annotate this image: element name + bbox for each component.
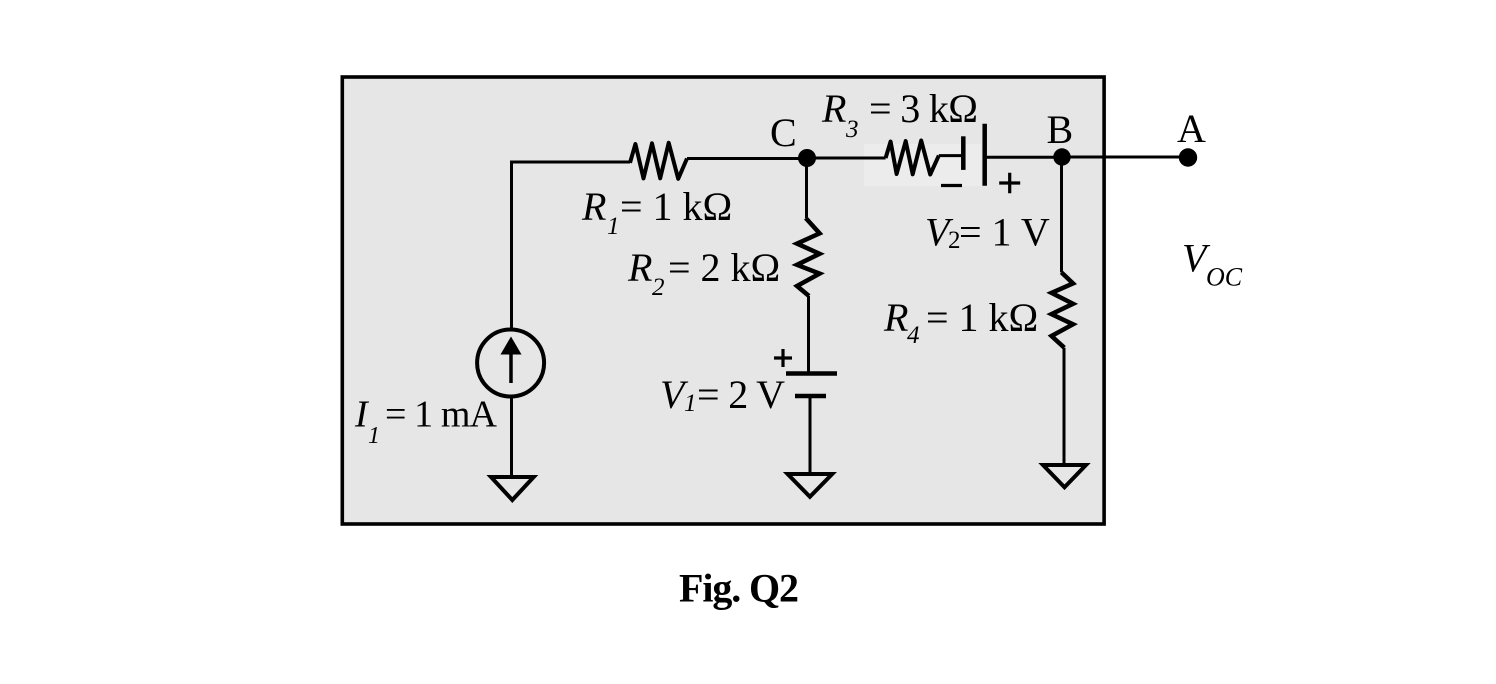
ground (under V1) xyxy=(788,474,833,497)
node B xyxy=(1053,148,1070,165)
wire: R1 to node C xyxy=(687,157,807,160)
svg-text:Fig. Q2: Fig. Q2 xyxy=(679,566,799,611)
label R1 = 1 kOhm xyxy=(581,184,732,240)
battery V2 long plate xyxy=(982,124,987,186)
resistor R4 xyxy=(1052,272,1074,347)
svg-text:C: C xyxy=(770,110,797,155)
ground (under R4) xyxy=(1043,465,1086,487)
resistor R3 xyxy=(886,141,939,175)
battery V1 plus sign xyxy=(774,349,792,367)
battery V1 short plate xyxy=(795,394,826,399)
node A xyxy=(1179,148,1197,166)
svg-text:= 3 kΩ: = 3 kΩ xyxy=(869,86,978,131)
wire: node C to R3 xyxy=(807,157,886,160)
wire: current source to ground xyxy=(510,397,513,476)
resistor R2 xyxy=(797,218,820,296)
wire: battery V2 to node B xyxy=(986,156,1062,159)
wire: left vertical + top horizontal to R1 xyxy=(512,162,631,330)
ground (under I1) xyxy=(491,477,534,500)
current source arrow xyxy=(509,352,513,383)
battery V1 long plate xyxy=(786,371,837,376)
svg-text:= 1 kΩ: = 1 kΩ xyxy=(926,295,1038,340)
svg-text:= 2 kΩ: = 2 kΩ xyxy=(668,245,780,290)
svg-text:3: 3 xyxy=(845,116,859,143)
svg-text:1: 1 xyxy=(607,213,620,240)
svg-text:= 1 kΩ: = 1 kΩ xyxy=(620,184,732,229)
current source I1 circle xyxy=(477,330,544,397)
battery V2 short plate xyxy=(961,136,966,170)
svg-text:= 1 V: = 1 V xyxy=(959,210,1050,255)
highlight rectangle behind R3 xyxy=(864,144,981,186)
battery V2 minus sign xyxy=(941,184,962,187)
node C xyxy=(798,149,816,167)
battery V2 plus sign xyxy=(999,173,1020,193)
svg-text:A: A xyxy=(1177,106,1206,151)
svg-text:4: 4 xyxy=(907,322,920,349)
circuit boundary box xyxy=(342,77,1104,524)
svg-text:= 1 mA: = 1 mA xyxy=(385,394,498,436)
wire: R3 to battery V2 xyxy=(939,154,962,157)
label R2 = 2 kOhm xyxy=(627,245,780,301)
label V2 = 1 V xyxy=(925,210,1050,255)
svg-text:R: R xyxy=(821,86,846,131)
svg-text:= 2 V: = 2 V xyxy=(697,372,785,417)
label Voc xyxy=(1182,236,1243,292)
svg-text:1: 1 xyxy=(368,423,380,449)
wire: R4 to ground xyxy=(1063,348,1066,463)
svg-text:R: R xyxy=(581,184,606,229)
svg-text:1: 1 xyxy=(684,390,697,417)
svg-text:R: R xyxy=(627,245,652,290)
label R4 = 1 kOhm xyxy=(883,295,1038,349)
svg-text:OC: OC xyxy=(1206,263,1243,292)
svg-text:B: B xyxy=(1047,107,1074,152)
svg-text:R: R xyxy=(883,295,908,340)
label V1 = 2 V xyxy=(660,372,785,417)
wire: node B to node A xyxy=(1062,156,1188,159)
wire: node C down to R2 xyxy=(805,158,808,218)
wire: node B down to R4 xyxy=(1060,157,1063,272)
wire: battery V1 to ground xyxy=(809,396,812,472)
resistor R1 xyxy=(630,143,687,179)
svg-text:2: 2 xyxy=(652,274,665,301)
label R3 = 3 kOhm xyxy=(821,86,978,143)
wire: R2 to battery V1 xyxy=(807,296,810,372)
label I1 = 1 mA xyxy=(354,394,498,450)
